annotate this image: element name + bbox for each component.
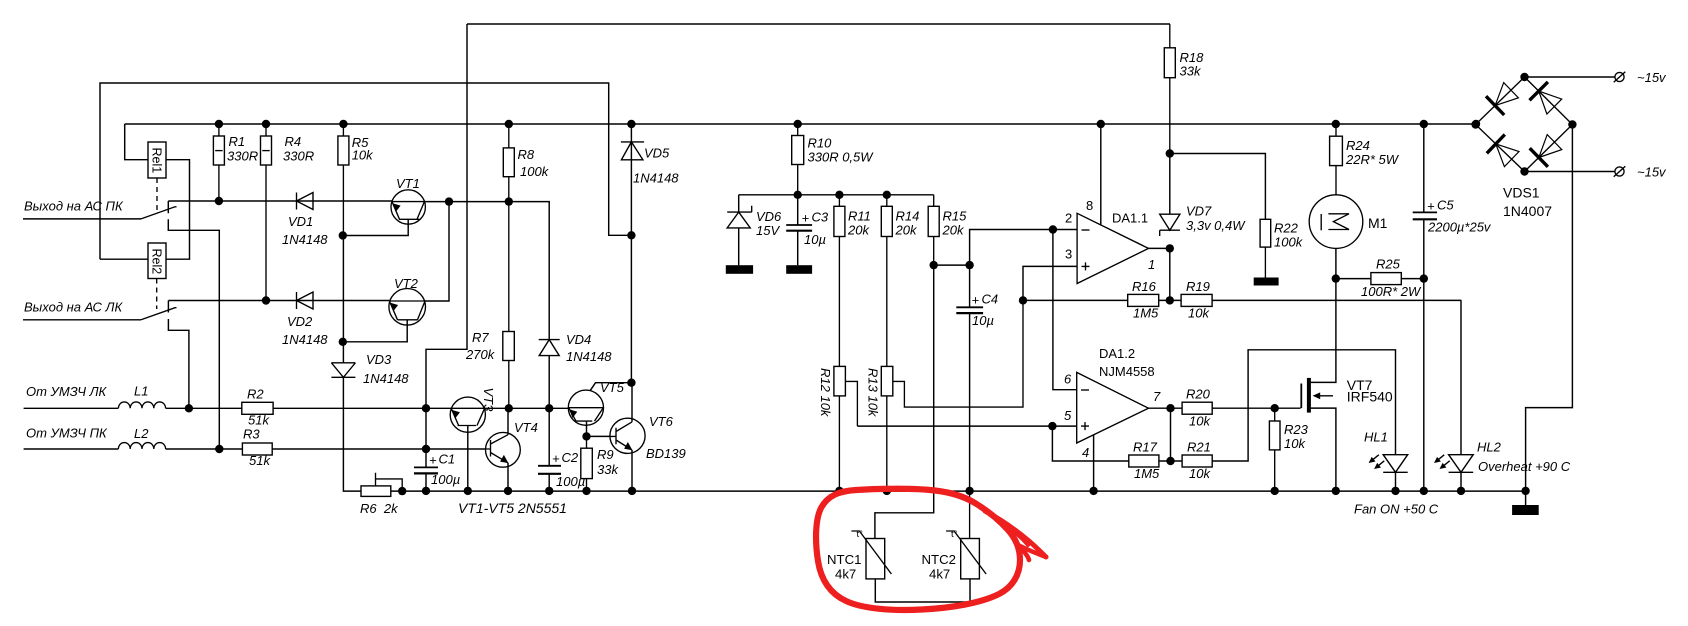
svg-text:10k: 10k	[1284, 436, 1306, 451]
resistor R3	[242, 427, 272, 469]
svg-text:VD1: VD1	[288, 214, 313, 229]
wire top rail +V to R18	[467, 23, 1170, 25]
svg-text:VD6: VD6	[756, 209, 782, 224]
wire NTC1 riser	[875, 265, 934, 538]
resistor R1	[213, 124, 258, 201]
node bus pin4	[1089, 487, 1097, 495]
resistor R15	[928, 195, 967, 265]
svg-text:22R* 5W: 22R* 5W	[1345, 152, 1400, 167]
svg-text:NTC2: NTC2	[922, 552, 956, 567]
svg-text:DA1.2: DA1.2	[1099, 346, 1135, 361]
svg-text:NJM4558: NJM4558	[1099, 364, 1155, 379]
switch 1 contact bracket	[168, 201, 219, 449]
wire reference rail	[739, 194, 934, 196]
svg-text:7: 7	[1153, 389, 1161, 404]
transistor VT3	[450, 388, 496, 491]
svg-text:R21: R21	[1187, 440, 1211, 455]
thermistor NTC1	[827, 529, 891, 582]
wire Rel2 left	[100, 258, 148, 260]
node pin7 feedback	[1166, 404, 1174, 412]
resistor R22	[1170, 154, 1304, 278]
transistor VT6	[610, 383, 686, 491]
wire VT1 collector line	[424, 202, 549, 340]
resistor R23	[1269, 408, 1308, 491]
svg-text:~15v: ~15v	[1637, 165, 1667, 180]
node L2 switch1	[215, 445, 223, 453]
switch 2 input line	[23, 319, 141, 321]
inductor L1	[24, 384, 166, 409]
diode VD2	[282, 292, 328, 347]
resistor R21	[1182, 440, 1212, 482]
svg-text:1M5: 1M5	[1134, 466, 1160, 481]
zener VD7	[1160, 154, 1247, 301]
node bus VD5	[627, 120, 635, 128]
node bus C4	[965, 487, 973, 495]
node bus HL1	[1391, 487, 1399, 495]
op-amp DA1.1	[1065, 198, 1155, 284]
wire pin7 output	[1149, 407, 1183, 409]
resistor R8	[503, 124, 549, 202]
svg-text:L1: L1	[134, 384, 148, 399]
wire R17 R21 line	[1159, 460, 1182, 462]
svg-text:1: 1	[1148, 257, 1155, 272]
svg-text:330R: 330R	[227, 149, 258, 164]
svg-text:+: +	[429, 453, 437, 468]
thermistor NTC2	[922, 491, 987, 582]
terminal ~15v bottom	[1614, 165, 1667, 180]
inductor L2	[24, 426, 166, 449]
svg-text:330R 0,5W: 330R 0,5W	[808, 150, 875, 165]
svg-text:C4: C4	[982, 292, 999, 307]
node bus VT6	[628, 487, 636, 495]
svg-text:t°: t°	[951, 529, 958, 540]
wire bridge to terminal 2	[1525, 171, 1615, 173]
svg-text:VD5: VD5	[644, 146, 670, 161]
wire R25 row	[1336, 278, 1424, 280]
svg-text:5: 5	[1064, 408, 1072, 423]
svg-text:BD139: BD139	[646, 446, 686, 461]
node collector line R8	[505, 197, 513, 205]
node C4 top column	[965, 261, 973, 269]
svg-text:10k: 10k	[1188, 306, 1210, 321]
diode VD5	[621, 124, 679, 383]
svg-text:330R: 330R	[283, 149, 314, 164]
wire sum vertical	[425, 408, 427, 449]
node R17 R21	[1166, 457, 1174, 465]
diode VD4	[539, 332, 613, 364]
ground VD6	[726, 265, 753, 274]
svg-text:15V: 15V	[756, 223, 780, 238]
svg-text:20k: 20k	[942, 223, 965, 238]
node bus HL2	[1457, 487, 1465, 495]
transistor VT1	[343, 176, 426, 236]
svg-text:R17: R17	[1133, 440, 1158, 455]
svg-text:VT5: VT5	[600, 380, 625, 395]
node base line R7	[505, 404, 513, 412]
node bus C5	[1420, 487, 1428, 495]
svg-text:HL1: HL1	[1364, 430, 1388, 445]
resistor R11	[834, 195, 871, 367]
wire bus to Rel1	[125, 124, 148, 160]
node R15 bottom	[930, 261, 938, 269]
svg-text:VD3: VD3	[366, 352, 392, 367]
svg-text:VD7: VD7	[1186, 204, 1212, 219]
trimmer R13	[866, 300, 1024, 490]
resistor R10	[792, 124, 875, 195]
svg-text:R6 2k: R6 2k	[360, 501, 399, 516]
svg-text:100k: 100k	[1274, 235, 1304, 250]
svg-text:R2: R2	[247, 387, 264, 402]
node R16 R19 VD7	[1166, 296, 1174, 304]
node base line VD4	[545, 404, 553, 412]
svg-text:C3: C3	[812, 210, 829, 225]
svg-text:Rel2: Rel2	[150, 249, 164, 275]
svg-text:2200µ*25v: 2200µ*25v	[1427, 220, 1492, 235]
node bus DA1 pin8	[1097, 120, 1105, 128]
node bus bridge	[1472, 120, 1480, 128]
resistor R4	[261, 124, 315, 301]
svg-text:L2: L2	[134, 426, 149, 441]
svg-text:C2: C2	[562, 450, 579, 465]
wire bottom bus	[391, 490, 1526, 492]
node bus R13	[883, 487, 891, 495]
ground main	[1512, 491, 1539, 515]
svg-text:3: 3	[1065, 247, 1072, 262]
svg-text:DA1.1: DA1.1	[1112, 211, 1148, 226]
svg-text:100R* 2W: 100R* 2W	[1361, 284, 1422, 299]
wire bridge right to ground	[1526, 125, 1573, 491]
node R25 C5	[1420, 274, 1428, 282]
ground R22	[1254, 278, 1279, 286]
svg-text:+: +	[802, 211, 810, 226]
wire R3 to VT4 base	[272, 448, 485, 450]
svg-text:51k: 51k	[248, 413, 270, 428]
svg-text:Выход на АС ЛК: Выход на АС ЛК	[24, 300, 123, 315]
svg-text:3,3v 0,4W: 3,3v 0,4W	[1186, 218, 1246, 233]
node C4 pin3 R16	[1019, 296, 1027, 304]
svg-text:VT2: VT2	[394, 276, 419, 291]
node pin5 R17	[1048, 422, 1056, 430]
node bus R5	[339, 120, 347, 128]
wire VD2 line	[168, 300, 389, 302]
svg-text:VD2: VD2	[287, 314, 313, 329]
wire bridge to terminal 1	[1525, 76, 1615, 78]
svg-text:От УМЗЧ ЛК: От УМЗЧ ЛК	[26, 384, 108, 399]
wire Rel1 right to Rel2 right	[165, 160, 189, 260]
svg-text:1N4148: 1N4148	[282, 232, 328, 247]
led HL1	[1364, 430, 1408, 491]
wire VT5 base line	[549, 407, 568, 409]
node pin2 pin6 junction	[1049, 225, 1057, 233]
svg-text:1M5: 1M5	[1133, 306, 1159, 321]
wire Rel2 dashed actuator	[156, 279, 158, 310]
switch 2 contact bracket	[168, 301, 189, 409]
svg-text:R9: R9	[597, 447, 614, 462]
svg-text:10µ: 10µ	[804, 232, 826, 247]
svg-text:20k: 20k	[895, 223, 918, 238]
svg-text:+: +	[972, 293, 980, 308]
node R6 tap	[398, 487, 406, 495]
svg-text:R12 10k: R12 10k	[818, 368, 833, 418]
node bus C2	[545, 487, 553, 495]
svg-text:10µ: 10µ	[972, 313, 994, 328]
svg-text:IRF540: IRF540	[1347, 389, 1393, 405]
wire pin2 feed	[970, 230, 1078, 266]
svg-text:R11: R11	[848, 209, 871, 224]
node VD5 relay loop	[627, 231, 635, 239]
diode VD1	[282, 193, 328, 248]
svg-text:1N4148: 1N4148	[282, 332, 328, 347]
wire R16 R19 line	[1023, 299, 1461, 301]
svg-text:1N4007: 1N4007	[1503, 203, 1552, 219]
resistor R7	[465, 202, 514, 409]
wire main +supply bus	[125, 123, 1476, 125]
wire L1 to R2	[166, 407, 242, 409]
svg-text:100k: 100k	[520, 164, 550, 179]
svg-text:R7: R7	[472, 330, 489, 345]
svg-text:+: +	[552, 451, 560, 466]
svg-text:t°: t°	[857, 529, 864, 540]
node rail R14	[883, 191, 891, 199]
wire R20 to gate	[1212, 407, 1300, 409]
svg-text:C1: C1	[439, 452, 456, 467]
svg-text:M1: M1	[1368, 215, 1388, 231]
svg-text:VT1: VT1	[396, 176, 420, 191]
wire R21 feedback to HL1	[1212, 350, 1395, 461]
svg-text:R8: R8	[518, 147, 535, 162]
trimmer R12	[818, 366, 857, 490]
svg-text:От УМЗЧ ПК: От УМЗЧ ПК	[26, 426, 108, 441]
node collector line VT2	[445, 197, 453, 205]
wire relay loop top	[100, 83, 631, 259]
svg-text:R16: R16	[1132, 279, 1157, 294]
relay Rel2	[148, 243, 166, 279]
zener VD6	[727, 195, 782, 265]
node bus VT4	[504, 487, 512, 495]
wire VT5 emitter to VT6 base	[587, 435, 611, 437]
wire VD4 to base line	[548, 356, 550, 409]
svg-text:R10: R10	[808, 136, 833, 151]
svg-text:4: 4	[1082, 445, 1089, 460]
svg-text:VT6: VT6	[649, 414, 674, 429]
svg-text:+: +	[1427, 199, 1435, 214]
node sum base line	[422, 404, 430, 412]
svg-text:51k: 51k	[249, 453, 271, 468]
svg-text:R25: R25	[1376, 257, 1401, 272]
wire pin1 output	[1149, 247, 1170, 249]
capacitor C2	[538, 408, 585, 491]
transistor VT4	[486, 408, 538, 491]
svg-text:NTC1: NTC1	[827, 552, 861, 567]
node VD2 line R4	[262, 296, 270, 304]
annotation red circle	[816, 489, 1046, 610]
transistor VT2	[343, 276, 426, 342]
terminal ~15v top	[1614, 70, 1667, 85]
resistor R20	[1182, 387, 1212, 429]
wire Rel1 dashed actuator	[156, 178, 158, 211]
svg-text:R3: R3	[243, 427, 260, 442]
node R18 R22 jog	[1166, 149, 1174, 157]
node bus R4	[262, 120, 270, 128]
wire L2 to R3	[166, 448, 243, 450]
diode VD3	[331, 352, 409, 491]
node rail R10	[794, 191, 802, 199]
relay Rel1	[148, 142, 166, 178]
svg-text:R23: R23	[1284, 422, 1309, 437]
svg-text:VD4: VD4	[566, 332, 591, 347]
svg-text:Выход на АС ПК: Выход на АС ПК	[24, 199, 124, 214]
node bus R8	[505, 120, 513, 128]
node bus R1	[215, 120, 223, 128]
node bus R23	[1271, 487, 1279, 495]
svg-text:R13 10k: R13 10k	[866, 368, 881, 418]
svg-text:Overheat +90 C: Overheat +90 C	[1478, 459, 1571, 474]
trimmer R6	[360, 473, 402, 516]
svg-text:6: 6	[1064, 372, 1072, 387]
wire R15 bottom row	[934, 264, 970, 266]
svg-text:VDS1: VDS1	[1503, 185, 1540, 201]
wire VT2 collector up	[425, 202, 449, 301]
resistor R25	[1361, 257, 1422, 300]
node bus ground	[1521, 487, 1529, 495]
svg-text:R19: R19	[1186, 279, 1210, 294]
svg-text:C5: C5	[1437, 198, 1454, 213]
svg-text:R20: R20	[1186, 387, 1211, 402]
wire VT3 to node	[485, 407, 550, 409]
svg-text:R14: R14	[896, 209, 920, 224]
switch 1 input line	[23, 218, 141, 220]
node pin1 VD7	[1166, 244, 1174, 252]
svg-text:4k7: 4k7	[929, 567, 950, 582]
node bus C1	[422, 487, 430, 495]
node VD1 line R1	[215, 197, 223, 205]
node bus R24	[1332, 120, 1340, 128]
svg-text:8: 8	[1086, 198, 1093, 213]
node bus R9	[582, 487, 590, 495]
resistor R9	[581, 436, 620, 490]
resistor R24	[1330, 124, 1400, 195]
wire top-rail drop to sum node	[426, 24, 467, 408]
svg-text:10k: 10k	[1189, 414, 1211, 429]
svg-text:2: 2	[1065, 211, 1072, 226]
node rail R11	[835, 191, 843, 199]
capacitor C5	[1413, 124, 1492, 491]
svg-text:R24: R24	[1346, 138, 1370, 153]
wire pin6 from pin2 node	[1053, 230, 1077, 390]
op-amp DA1.2	[1064, 346, 1161, 460]
node R20 line R23	[1271, 404, 1279, 412]
wire VD1 line	[168, 200, 392, 202]
resistor R17	[1129, 440, 1160, 482]
node VT5 emitter	[582, 432, 590, 440]
bridge rectifier VDS1	[1471, 73, 1576, 219]
resistor R5	[338, 124, 374, 236]
motor M1	[1309, 195, 1387, 249]
svg-text:4k7: 4k7	[835, 567, 856, 582]
node L1 switch2	[185, 404, 193, 412]
node bus R10	[794, 120, 802, 128]
svg-text:R4: R4	[285, 134, 302, 149]
svg-text:33k: 33k	[597, 462, 619, 477]
capacitor C1	[414, 449, 460, 491]
resistor R14	[881, 195, 919, 367]
wire R17-R21 to pin7 link	[1170, 408, 1172, 461]
svg-text:VT4: VT4	[514, 420, 538, 435]
node bus C5	[1420, 120, 1428, 128]
svg-text:Rel1: Rel1	[150, 148, 164, 174]
svg-text:VT1-VT5 2N5551: VT1-VT5 2N5551	[458, 500, 567, 516]
svg-text:R22: R22	[1274, 221, 1299, 236]
switch 2 lever	[141, 308, 177, 320]
svg-text:33k: 33k	[1180, 64, 1202, 79]
node VT2 emitter VD3	[339, 338, 347, 346]
svg-text:20k: 20k	[847, 223, 870, 238]
svg-text:R1: R1	[229, 134, 246, 149]
node VT5 collector VD5	[627, 379, 635, 387]
svg-text:100µ: 100µ	[431, 472, 460, 487]
node sum L2 line	[422, 445, 430, 453]
node bus VT3	[464, 487, 472, 495]
svg-text:1N4148: 1N4148	[363, 371, 409, 386]
ground C3	[786, 265, 812, 274]
led HL2	[1434, 300, 1571, 490]
svg-text:~15v: ~15v	[1637, 70, 1667, 85]
capacitor C4	[956, 265, 998, 491]
resistor R16	[1128, 279, 1159, 321]
wire R5 column down	[342, 236, 344, 363]
wire pin5 line	[857, 425, 1076, 427]
svg-text:10k: 10k	[352, 148, 374, 163]
wire pin8	[1100, 124, 1102, 225]
wire NTC bottoms	[875, 579, 970, 602]
mosfet VT7	[1301, 248, 1393, 490]
svg-text:HL2: HL2	[1477, 440, 1502, 455]
switch 1 lever	[141, 207, 177, 219]
capacitor C3	[786, 195, 829, 265]
svg-text:1N4148: 1N4148	[566, 349, 612, 364]
svg-text:R15: R15	[943, 209, 968, 224]
node bus VT7 source	[1332, 487, 1340, 495]
node VT1 emitter R5	[339, 231, 347, 239]
svg-text:Fan ON +50 C: Fan ON +50 C	[1354, 502, 1439, 517]
resistor R2	[242, 387, 273, 428]
wire pin4	[1093, 435, 1095, 491]
svg-text:10k: 10k	[1189, 466, 1211, 481]
resistor R18	[1164, 24, 1204, 154]
wire pin5 to R17	[1052, 426, 1128, 461]
svg-text:270k: 270k	[465, 347, 496, 362]
wire R2 to sum node	[273, 407, 451, 409]
node M1 R25	[1332, 274, 1340, 282]
svg-text:1N4148: 1N4148	[633, 171, 679, 186]
resistor R19	[1181, 279, 1212, 321]
wire pin3	[1023, 266, 1077, 300]
transistor VT5	[568, 380, 631, 436]
node bus R12	[835, 487, 843, 495]
